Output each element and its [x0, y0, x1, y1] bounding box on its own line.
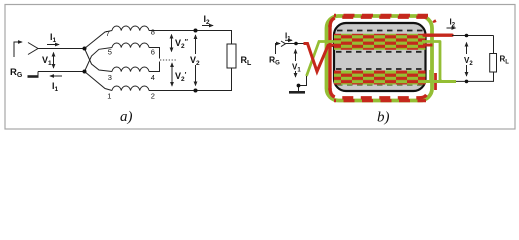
svg-text:V2″: V2″	[175, 38, 189, 50]
svg-text:I1: I1	[52, 81, 59, 93]
svg-text:RL: RL	[241, 55, 253, 67]
svg-text:RG: RG	[10, 67, 23, 79]
svg-text:RL: RL	[500, 55, 510, 66]
svg-text:RG: RG	[269, 55, 280, 67]
svg-text:V2′: V2′	[175, 71, 187, 83]
svg-text:8: 8	[151, 28, 155, 37]
svg-text:5: 5	[108, 48, 112, 57]
svg-text:V1: V1	[42, 55, 52, 67]
svg-text:6: 6	[151, 48, 155, 57]
svg-text:I2: I2	[204, 14, 211, 26]
svg-text:7: 7	[106, 29, 110, 38]
svg-text:4: 4	[151, 73, 155, 82]
svg-text:b): b)	[377, 110, 390, 126]
svg-text:I2: I2	[450, 18, 456, 29]
svg-text:I1: I1	[285, 32, 291, 43]
svg-text:3: 3	[108, 73, 112, 82]
svg-text:2: 2	[151, 92, 155, 101]
svg-text:I1: I1	[50, 32, 57, 44]
svg-text:a): a)	[120, 109, 133, 125]
svg-text:1: 1	[107, 92, 111, 101]
